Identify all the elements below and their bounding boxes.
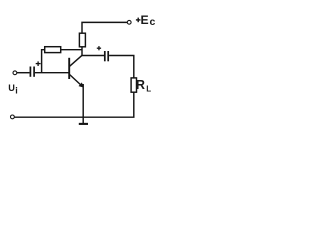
transistor Q1 collector stroke (70, 55, 83, 66)
svg-text:L: L (146, 84, 151, 93)
capacitor C1 plate right (33, 67, 35, 77)
capacitor C2 plate right (107, 51, 109, 61)
terminal circle input bottom (11, 115, 15, 119)
wire emitter to ground (82, 84, 84, 123)
terminal circle input top (13, 71, 17, 75)
wire collector node to capacitor C2 (82, 55, 104, 57)
plus sign of C2 (97, 46, 101, 50)
plus sign of +Ec (136, 18, 141, 23)
svg-text:E: E (141, 13, 149, 27)
resistor Rf (feedback resistor) (45, 47, 61, 53)
wire collector lead (81, 47, 83, 56)
wire top rail to +Ec terminal (82, 22, 127, 33)
resistor Rc (collector resistor) (79, 33, 85, 47)
resistor RL body (131, 78, 136, 92)
wire RL bottom to ground rail (14, 92, 133, 117)
transistor Q1 emitter arrowhead (79, 82, 84, 87)
ground bar (79, 123, 88, 125)
svg-text:R: R (136, 78, 145, 92)
terminal circle +Ec (127, 20, 131, 24)
wire input terminal to capacitor C1 (17, 72, 30, 74)
wire feedback right lead to collector node (61, 49, 82, 51)
svg-text:i: i (15, 85, 18, 95)
transistor Q1 emitter stroke with arrow (70, 75, 83, 87)
svg-text:c: c (150, 16, 156, 28)
transistor Q1 base bar (68, 58, 70, 79)
wire C2 to RL (109, 56, 134, 78)
wire feedback left lead down to base (42, 50, 45, 73)
capacitor C2 plate left (104, 51, 106, 61)
wire base (35, 72, 69, 74)
svg-text:U: U (8, 83, 15, 93)
plus sign of C1 (36, 61, 41, 66)
capacitor C1 plate left (29, 67, 31, 77)
